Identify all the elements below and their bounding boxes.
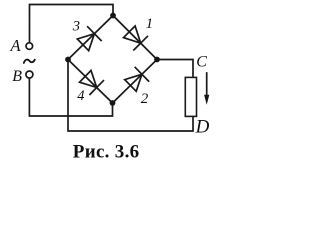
svg-text:3: 3 — [72, 19, 80, 35]
svg-text:D: D — [195, 117, 210, 138]
svg-text:1: 1 — [146, 16, 154, 32]
svg-text:Рис. 3.6: Рис. 3.6 — [73, 142, 140, 163]
svg-text:B: B — [12, 68, 22, 85]
svg-text:C: C — [196, 54, 207, 71]
svg-text:A: A — [10, 36, 22, 55]
svg-text:2: 2 — [141, 91, 149, 107]
svg-text:4: 4 — [77, 88, 84, 104]
